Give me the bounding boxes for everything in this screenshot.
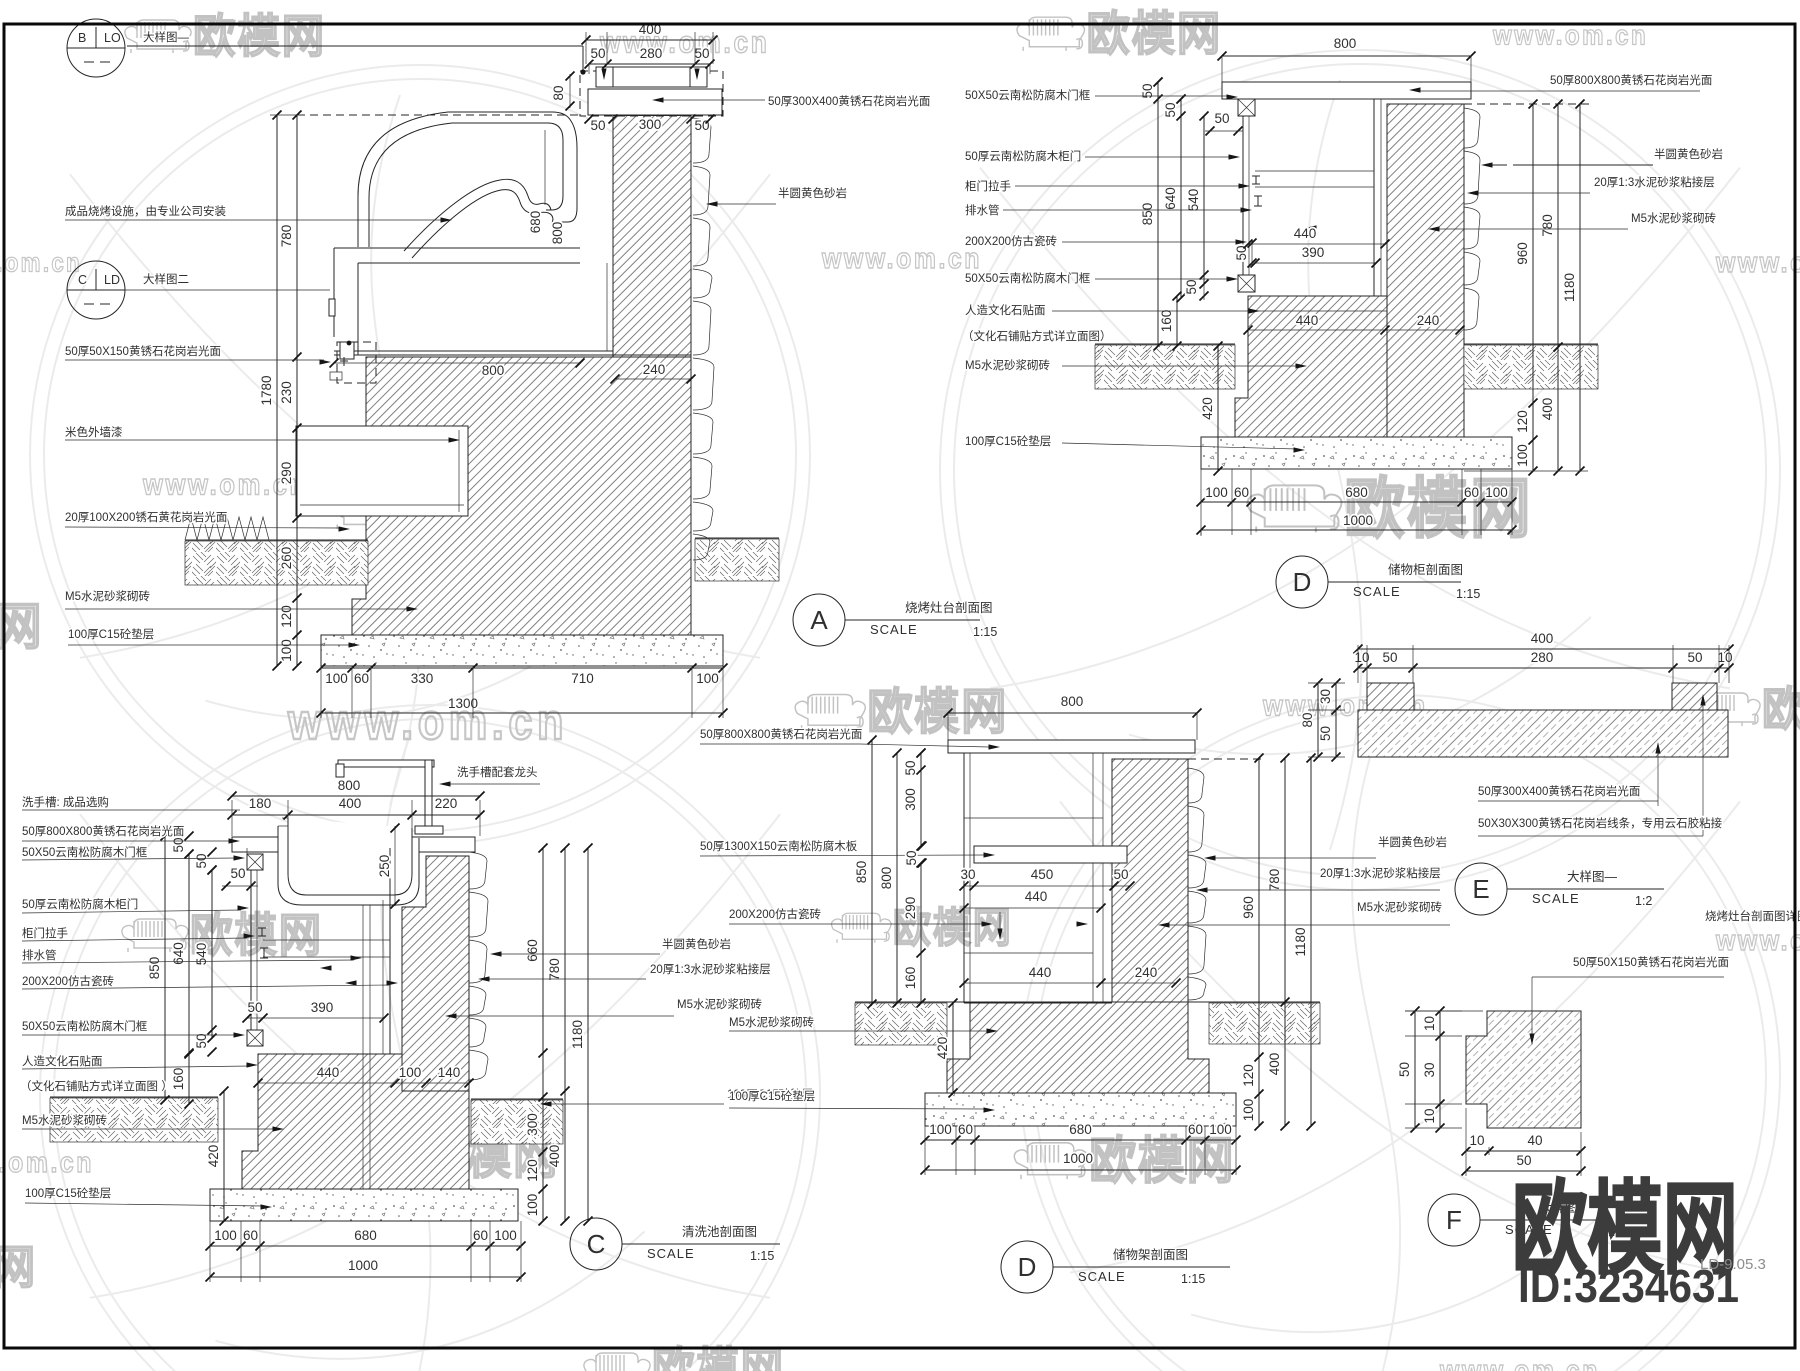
svg-text:100: 100 [1205, 485, 1228, 500]
svg-text:100: 100 [399, 1065, 422, 1080]
svg-text:成品烧烤设施，由专业公司安装: 成品烧烤设施，由专业公司安装 [65, 204, 226, 218]
svg-text:800: 800 [879, 867, 894, 890]
svg-text:50: 50 [1214, 111, 1229, 126]
svg-text:柜门拉手: 柜门拉手 [22, 926, 68, 940]
svg-text:100: 100 [1485, 485, 1508, 500]
svg-text:50: 50 [1516, 1153, 1531, 1168]
svg-text:50X50云南松防腐木门框: 50X50云南松防腐木门框 [965, 88, 1091, 102]
svg-text:100厚C15砼垫层: 100厚C15砼垫层 [25, 1186, 111, 1200]
svg-text:160: 160 [1159, 310, 1174, 333]
svg-text:1:15: 1:15 [750, 1249, 774, 1263]
svg-text:50: 50 [194, 1033, 209, 1048]
svg-text:680: 680 [354, 1228, 377, 1243]
svg-text:M5水泥砂浆砌砖: M5水泥砂浆砌砖 [1631, 211, 1716, 225]
svg-text:440: 440 [1025, 889, 1048, 904]
svg-text:200X200仿古瓷砖: 200X200仿古瓷砖 [729, 907, 822, 921]
svg-text:20厚1:3水泥砂浆粘接层: 20厚1:3水泥砂浆粘接层 [1320, 866, 1441, 880]
svg-text:洗手槽配套龙头: 洗手槽配套龙头 [457, 765, 538, 779]
svg-text:640: 640 [1163, 187, 1178, 210]
svg-text:60: 60 [243, 1228, 258, 1243]
svg-text:50: 50 [1687, 650, 1702, 665]
svg-text:50厚50X150黄锈石花岗岩光面: 50厚50X150黄锈石花岗岩光面 [1573, 955, 1729, 969]
svg-text:140: 140 [438, 1065, 461, 1080]
svg-text:烧烤灶台剖面图: 烧烤灶台剖面图 [905, 600, 993, 615]
svg-text:C: C [78, 273, 87, 287]
svg-text:780: 780 [1267, 869, 1282, 892]
svg-text:50厚800X800黄锈石花岗岩光面: 50厚800X800黄锈石花岗岩光面 [700, 727, 862, 741]
svg-text:680: 680 [1069, 1122, 1092, 1137]
svg-text:50厚300X400黄锈石花岗岩光面: 50厚300X400黄锈石花岗岩光面 [768, 94, 930, 108]
svg-text:D: D [1293, 567, 1312, 597]
svg-text:清洗池剖面图: 清洗池剖面图 [682, 1225, 757, 1239]
svg-text:660: 660 [525, 939, 540, 962]
svg-text:100: 100 [214, 1228, 237, 1243]
svg-text:50: 50 [171, 837, 186, 852]
svg-text:50X30X300黄锈石花岗岩线条，专用云石胶粘接: 50X30X300黄锈石花岗岩线条，专用云石胶粘接 [1478, 816, 1723, 830]
svg-text:450: 450 [1031, 867, 1054, 882]
svg-text:1180: 1180 [1293, 927, 1308, 956]
svg-text:680: 680 [528, 211, 543, 234]
svg-text:50: 50 [247, 1000, 262, 1015]
svg-text:50: 50 [1113, 867, 1128, 882]
svg-text:40: 40 [1527, 1133, 1542, 1148]
svg-text:60: 60 [1188, 1122, 1203, 1137]
svg-text:50: 50 [1397, 1062, 1412, 1077]
svg-text:1180: 1180 [1562, 273, 1577, 302]
svg-text:SCALE: SCALE [647, 1246, 695, 1261]
svg-text:400: 400 [1531, 631, 1554, 646]
svg-text:大样图二: 大样图二 [143, 272, 189, 286]
svg-text:390: 390 [1302, 245, 1325, 260]
svg-text:大样图—: 大样图— [143, 30, 189, 44]
svg-text:100: 100 [1515, 444, 1530, 467]
svg-text:100厚C15砼垫层: 100厚C15砼垫层 [729, 1089, 815, 1103]
svg-text:20厚100X200锈石黄花岗岩光面: 20厚100X200锈石黄花岗岩光面 [65, 510, 227, 524]
svg-text:50X50云南松防腐木门框: 50X50云南松防腐木门框 [22, 845, 148, 859]
svg-text:50厚云南松防腐木柜门: 50厚云南松防腐木柜门 [965, 149, 1081, 163]
svg-text:M5水泥砂浆砌砖: M5水泥砂浆砌砖 [22, 1113, 107, 1127]
svg-text:200X200仿古瓷砖: 200X200仿古瓷砖 [965, 234, 1058, 248]
svg-text:50: 50 [694, 46, 709, 61]
svg-text:400: 400 [547, 1145, 562, 1168]
svg-text:D: D [1018, 1252, 1037, 1282]
svg-text:50: 50 [904, 850, 919, 865]
svg-text:SCALE: SCALE [1353, 584, 1401, 599]
svg-text:30: 30 [1422, 1062, 1437, 1077]
svg-text:人造文化石贴面: 人造文化石贴面 [22, 1054, 103, 1068]
svg-text:160: 160 [171, 1068, 186, 1091]
svg-text:LD-9.05.3: LD-9.05.3 [1700, 1256, 1766, 1273]
svg-text:50X50云南松防腐木门框: 50X50云南松防腐木门框 [22, 1019, 148, 1033]
svg-text:M5水泥砂浆砌砖: M5水泥砂浆砌砖 [1357, 900, 1442, 914]
svg-text:LD: LD [104, 273, 120, 287]
svg-text:M5水泥砂浆砌砖: M5水泥砂浆砌砖 [65, 589, 150, 603]
svg-text:280: 280 [1531, 650, 1554, 665]
svg-text:SCALE: SCALE [870, 622, 918, 637]
svg-text:100: 100 [494, 1228, 517, 1243]
svg-text:排水管: 排水管 [965, 203, 1000, 217]
svg-text:60: 60 [1234, 485, 1249, 500]
svg-text:330: 330 [411, 671, 434, 686]
svg-text:50厚800X800黄锈石花岗岩光面: 50厚800X800黄锈石花岗岩光面 [22, 824, 184, 838]
svg-text:440: 440 [1029, 965, 1052, 980]
svg-text:780: 780 [1540, 214, 1555, 237]
svg-text:20厚1:3水泥砂浆粘接层: 20厚1:3水泥砂浆粘接层 [650, 962, 771, 976]
svg-text:E: E [1472, 874, 1489, 904]
svg-text:1300: 1300 [448, 696, 478, 711]
svg-text:100: 100 [325, 671, 348, 686]
svg-text:半圆黄色砂岩: 半圆黄色砂岩 [1378, 835, 1447, 849]
svg-text:290: 290 [903, 897, 918, 920]
svg-text:800: 800 [1061, 694, 1084, 709]
svg-text:洗手槽: 成品选购: 洗手槽: 成品选购 [22, 795, 109, 809]
svg-text:60: 60 [473, 1228, 488, 1243]
svg-text:120: 120 [1241, 1064, 1256, 1087]
svg-text:960: 960 [1515, 242, 1530, 265]
svg-text:800: 800 [1334, 36, 1357, 51]
svg-text:50: 50 [1234, 245, 1249, 260]
svg-text:800: 800 [338, 778, 361, 793]
svg-text:半圆黄色砂岩: 半圆黄色砂岩 [778, 186, 847, 200]
svg-text:1180: 1180 [570, 1020, 585, 1049]
svg-text:850: 850 [854, 861, 869, 884]
svg-text:420: 420 [1200, 397, 1215, 420]
svg-text:20厚1:3水泥砂浆粘接层: 20厚1:3水泥砂浆粘接层 [1594, 175, 1715, 189]
svg-text:烧烤灶台剖面图详图: 烧烤灶台剖面图详图 [1705, 909, 1800, 923]
svg-text:440: 440 [1294, 226, 1317, 241]
svg-text:420: 420 [206, 1145, 221, 1168]
svg-text:50厚云南松防腐木柜门: 50厚云南松防腐木柜门 [22, 897, 138, 911]
svg-text:400: 400 [1540, 398, 1555, 421]
svg-text:160: 160 [903, 967, 918, 990]
svg-text:440: 440 [317, 1065, 340, 1080]
svg-text:50: 50 [1163, 102, 1178, 117]
svg-text:半圆黄色砂岩: 半圆黄色砂岩 [1654, 147, 1723, 161]
svg-text:50: 50 [1184, 279, 1199, 294]
svg-text:440: 440 [1296, 313, 1319, 328]
svg-text:50厚1300X150云南松防腐木板: 50厚1300X150云南松防腐木板 [700, 839, 858, 853]
svg-text:100: 100 [1209, 1122, 1232, 1137]
svg-text:LO: LO [104, 31, 121, 45]
svg-text:SCALE: SCALE [1078, 1269, 1126, 1284]
svg-text:800: 800 [482, 363, 505, 378]
svg-text:1:15: 1:15 [973, 625, 997, 639]
svg-text:280: 280 [640, 46, 663, 61]
svg-text:人造文化石贴面: 人造文化石贴面 [965, 303, 1046, 317]
svg-text:10: 10 [1422, 1108, 1437, 1123]
svg-text:850: 850 [1140, 203, 1155, 226]
svg-text:680: 680 [1345, 485, 1368, 500]
svg-text:290: 290 [279, 462, 294, 485]
svg-text:180: 180 [249, 796, 272, 811]
svg-text:50: 50 [1318, 726, 1333, 741]
svg-text:1000: 1000 [1343, 513, 1373, 528]
svg-text:米色外墙漆: 米色外墙漆 [65, 425, 123, 439]
svg-text:30: 30 [960, 867, 975, 882]
svg-text:220: 220 [435, 796, 458, 811]
svg-text:B: B [78, 31, 86, 45]
svg-text:50厚300X400黄锈石花岗岩光面: 50厚300X400黄锈石花岗岩光面 [1478, 784, 1640, 798]
svg-text:50: 50 [903, 760, 918, 775]
svg-text:10: 10 [1717, 650, 1732, 665]
svg-text:800: 800 [550, 222, 565, 245]
svg-text:排水管: 排水管 [22, 948, 57, 962]
svg-text:50: 50 [1382, 650, 1397, 665]
svg-text:柜门拉手: 柜门拉手 [965, 179, 1011, 193]
svg-text:C: C [587, 1229, 606, 1259]
svg-text:50: 50 [590, 46, 605, 61]
svg-text:50: 50 [694, 118, 709, 133]
svg-text:710: 710 [571, 671, 594, 686]
svg-text:240: 240 [1417, 313, 1440, 328]
svg-text:1:15: 1:15 [1456, 587, 1480, 601]
svg-text:50: 50 [230, 866, 245, 881]
svg-text:10: 10 [1422, 1016, 1437, 1031]
svg-text:120: 120 [525, 1159, 540, 1182]
svg-text:100: 100 [525, 1194, 540, 1217]
svg-text:60: 60 [958, 1122, 973, 1137]
svg-text:400: 400 [1267, 1053, 1282, 1076]
svg-text:60: 60 [354, 671, 369, 686]
svg-text:1000: 1000 [1063, 1151, 1093, 1166]
svg-text:390: 390 [311, 1000, 334, 1015]
svg-text:50厚800X800黄锈石花岗岩光面: 50厚800X800黄锈石花岗岩光面 [1550, 73, 1712, 87]
svg-text:300: 300 [639, 117, 662, 132]
svg-text:100: 100 [1241, 1099, 1256, 1122]
svg-text:大样图—: 大样图— [1567, 869, 1618, 884]
svg-text:10: 10 [1469, 1133, 1484, 1148]
svg-text:储物架剖面图: 储物架剖面图 [1113, 1247, 1188, 1262]
svg-text:50: 50 [194, 853, 209, 868]
svg-text:30: 30 [1318, 689, 1333, 704]
svg-text:540: 540 [194, 943, 209, 966]
svg-text:240: 240 [643, 362, 666, 377]
svg-text:100: 100 [279, 639, 294, 662]
svg-text:260: 260 [279, 547, 294, 570]
svg-text:850: 850 [147, 957, 162, 980]
svg-text:1000: 1000 [348, 1258, 378, 1273]
svg-text:（文化石铺贴方式详立面图 ）: （文化石铺贴方式详立面图 ） [20, 1079, 173, 1093]
svg-text:80: 80 [551, 85, 566, 100]
svg-text:M5水泥砂浆砌砖: M5水泥砂浆砌砖 [965, 358, 1050, 372]
svg-text:200X200仿古瓷砖: 200X200仿古瓷砖 [22, 974, 115, 988]
svg-text:（文化石铺贴方式详立面图）: （文化石铺贴方式详立面图） [962, 329, 1112, 343]
svg-text:100: 100 [929, 1122, 952, 1137]
svg-text:120: 120 [279, 605, 294, 628]
svg-text:60: 60 [1464, 485, 1479, 500]
svg-text:1780: 1780 [259, 375, 274, 405]
svg-text:230: 230 [279, 381, 294, 404]
svg-text:50X50云南松防腐木门框: 50X50云南松防腐木门框 [965, 271, 1091, 285]
svg-text:储物柜剖面图: 储物柜剖面图 [1388, 562, 1463, 577]
svg-text:F: F [1446, 1205, 1462, 1235]
svg-text:960: 960 [1241, 896, 1256, 919]
svg-text:80: 80 [1300, 712, 1315, 727]
svg-text:50: 50 [590, 118, 605, 133]
svg-text:300: 300 [903, 788, 918, 811]
svg-text:SCALE: SCALE [1532, 891, 1580, 906]
svg-text:300: 300 [525, 1113, 540, 1136]
svg-text:100: 100 [696, 671, 719, 686]
svg-text:250: 250 [377, 855, 392, 878]
svg-text:1:2: 1:2 [1635, 894, 1652, 908]
svg-text:420: 420 [935, 1037, 950, 1060]
svg-text:100厚C15砼垫层: 100厚C15砼垫层 [68, 627, 154, 641]
svg-text:240: 240 [1135, 965, 1158, 980]
svg-text:780: 780 [547, 958, 562, 981]
svg-text:M5水泥砂浆砌砖: M5水泥砂浆砌砖 [729, 1015, 814, 1029]
svg-text:780: 780 [279, 225, 294, 248]
svg-text:半圆黄色砂岩: 半圆黄色砂岩 [662, 937, 731, 951]
svg-text:100厚C15砼垫层: 100厚C15砼垫层 [965, 434, 1051, 448]
svg-text:400: 400 [339, 796, 362, 811]
svg-text:1:15: 1:15 [1181, 1272, 1205, 1286]
svg-text:120: 120 [1515, 410, 1530, 433]
svg-text:M5水泥砂浆砌砖: M5水泥砂浆砌砖 [677, 997, 762, 1011]
svg-text:A: A [810, 605, 828, 635]
svg-text:50厚50X150黄锈石花岗岩光面: 50厚50X150黄锈石花岗岩光面 [65, 344, 221, 358]
svg-text:540: 540 [1186, 189, 1201, 212]
